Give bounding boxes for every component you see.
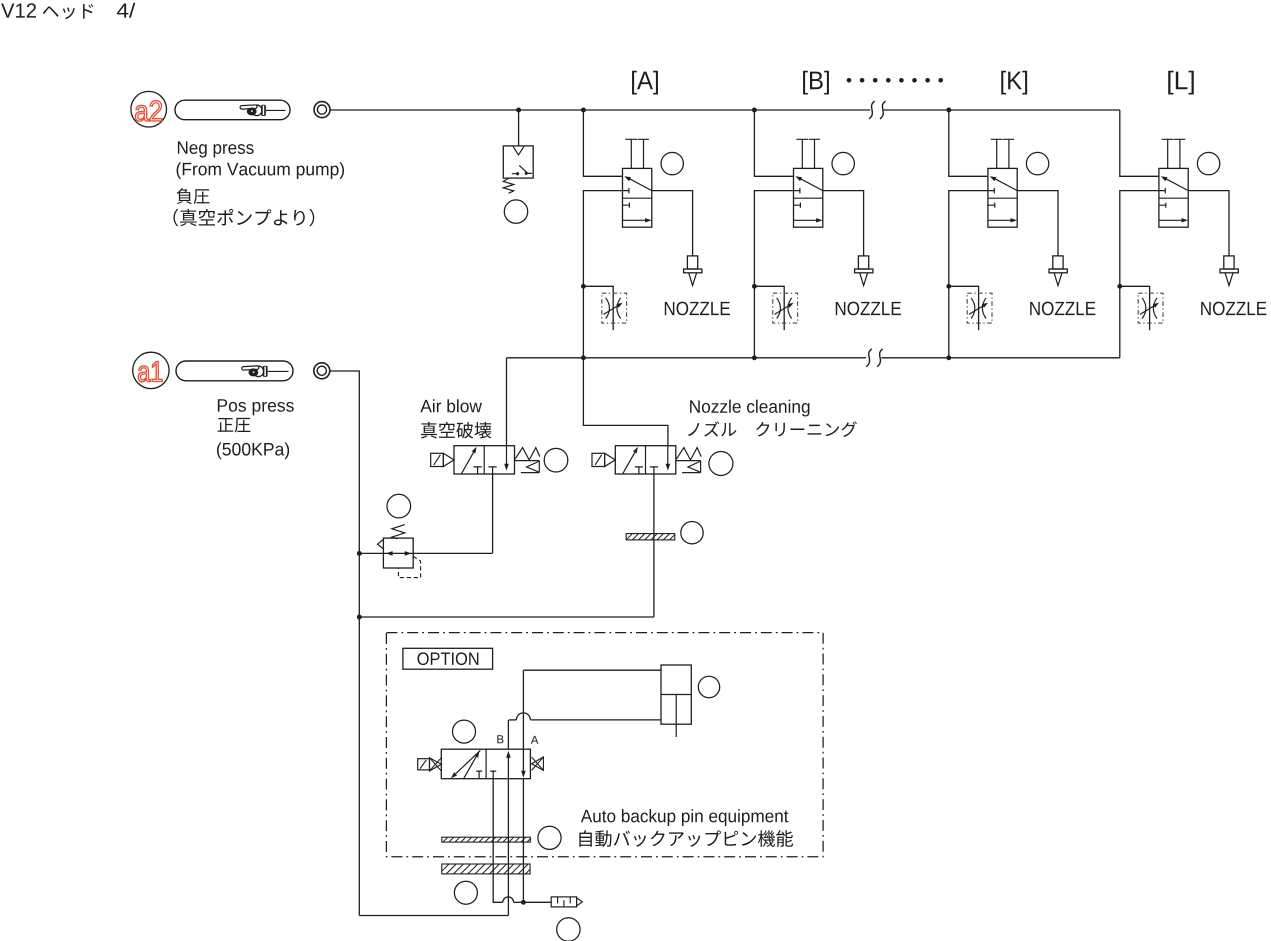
circle beside head plate [538,826,561,849]
junction at regulator tap [357,551,362,556]
wire: unit L riser from top bus [1120,110,1159,176]
vacuum valve unit B (3/2 valve) [794,139,823,227]
nozzle-cleaning valve circle [709,452,733,476]
wire: lower distribution bus [507,357,1120,359]
label "[L]" [1168,71,1194,95]
vacuum switch spring [503,178,513,193]
wire: unit K lower branch to bottom bus [949,191,988,358]
vacuum valve unit K (3/2 valve) [988,139,1017,227]
junction on top bus at pressure switch [516,108,521,113]
vacuum switch gauge circle [504,200,527,223]
indicator circle unit A [661,152,683,174]
junction at unit K throttle tap [946,284,951,289]
wire: to silencer [523,901,551,903]
regulator spring [392,525,405,539]
marker a1 circle [133,352,169,388]
nozzle-cleaning valve (3/2 solenoid) [592,446,701,474]
circle beside hatch bar [681,522,703,544]
wire: lower bus jog to nozzle-cleaning valve [583,358,668,446]
wire: negative-pressure top bus [331,109,1120,111]
indicator circle unit K [1026,152,1048,174]
label "A" [531,736,539,744]
break mark on top bus [870,101,886,118]
backup-pin cylinder [509,665,692,737]
regulator body [378,538,414,568]
hatch bar (base plate) [442,864,530,874]
wire: positive-pressure feed down [331,371,360,916]
label "Neg press" [178,141,254,157]
wire: regulator flow line [359,551,492,556]
regulator drain (dashed) [398,556,420,577]
wire: unit A riser from top bus [583,110,622,176]
port connector a2 (double circle) [314,102,330,118]
indicator circle unit L [1197,152,1219,174]
air-blow valve (3/2 solenoid) [431,446,540,474]
break mark on lower bus [867,349,883,366]
ellipsis dots between [B] and [K] [847,78,943,83]
throttle valve unit L [1120,286,1163,330]
throttle valve unit A [583,286,626,330]
wire: unit B lower branch to bottom bus [754,191,793,358]
label "自動バックアップピン機能" [579,830,793,847]
circle below silencer [557,918,580,941]
label "NOZZLE" unit K [1030,302,1095,316]
label "（真空ポンプより）" [173,209,314,227]
junction on top bus at unit A [581,108,586,113]
wire: port A line through valve [521,670,526,902]
junction at nozzle-cleaning return [357,615,362,620]
wire: unit B valve to nozzle [823,191,864,256]
air-blow valve circle [544,448,568,472]
wire: air-blow valve output down [492,474,494,553]
wire: nozzle-cleaning return line [359,616,654,618]
wire: nozzle-cleaning output down [653,474,655,617]
port connector a1 (double circle) [314,363,330,379]
nozzle symbol unit B [855,256,873,286]
label "[A]" [632,71,658,95]
option valve circle [453,720,476,743]
junction lower bus unit A [581,355,586,360]
label "B" [497,735,503,743]
throttle valve unit B [754,286,797,330]
marker a2 circle [131,91,167,127]
label "NOZZLE" unit L [1201,302,1266,316]
junction at unit B throttle tap [752,284,757,289]
wire: unit L lower branch to bottom bus [1120,191,1159,358]
junction exhaust meets A line [521,900,526,905]
throttle valve unit K [949,286,992,330]
wire: unit K riser from top bus [949,110,988,176]
label "Auto backup pin equipment" [581,809,789,826]
label "(500KPa)" [217,442,289,459]
label "(From Vacuum pump)" [177,162,344,179]
label "ノズル クリーニング" [688,421,857,437]
wire: unit A lower branch to bottom bus [583,191,622,358]
silencer / check at exhaust [551,897,582,907]
regulator gauge circle [387,494,411,518]
label "NOZZLE" unit A [665,302,730,316]
label "[B]" [803,71,829,95]
vacuum switch PS box [503,146,533,178]
circle below base plate [454,881,477,904]
label "Air blow" [420,399,482,412]
OPTION label box [403,648,493,669]
junction on top bus at unit B [752,108,757,113]
nozzle symbol unit L [1220,256,1238,286]
junction lower bus unit B [752,355,757,360]
label "NOZZLE" unit B [836,302,901,316]
wire: port B riser to cylinder [507,720,509,749]
label "[K]" [1001,71,1027,95]
label "正圧" [218,418,251,433]
bulkhead hatch bar at nozzle-cleaning line [626,534,675,540]
junction at unit A throttle tap [581,284,586,289]
indicator circle unit B [832,152,854,174]
wire: unit A valve to nozzle [652,191,693,256]
option valve (4/2 solenoid) [418,749,544,779]
wire: unit L valve to nozzle [1188,191,1229,256]
junction at unit L throttle tap [1117,284,1122,289]
wire: unit K valve to nozzle [1017,191,1058,256]
vacuum valve unit A (3/2 valve) [623,139,652,227]
wire: exhaust line from valve [493,779,523,903]
OPTION dash-dot enclosure [386,633,823,857]
label "真空破壊" [421,422,491,439]
junction on top bus at unit K [946,108,951,113]
label "負圧" [177,188,210,204]
nozzle symbol unit K [1049,256,1067,286]
wire: pressure feed P into valve [359,751,510,916]
wire: drop to vacuum switch [518,110,520,146]
label "Nozzle cleaning" [690,400,809,417]
nozzle symbol unit A [684,256,702,286]
wire: lower bus to air-blow valve [506,358,508,446]
cylinder circle [698,676,719,697]
junction lower bus unit K [946,355,951,360]
label "Pos press" [218,399,294,415]
pointer hand button a2 [175,100,290,120]
vacuum valve unit L (3/2 valve) [1159,139,1188,227]
hatch bar (head plate, inside OPTION) [442,837,531,842]
wire: unit B riser from top bus [754,110,793,176]
pointer hand button a1 [176,361,293,381]
title text "V12 ヘッド 4/" [1,3,135,19]
